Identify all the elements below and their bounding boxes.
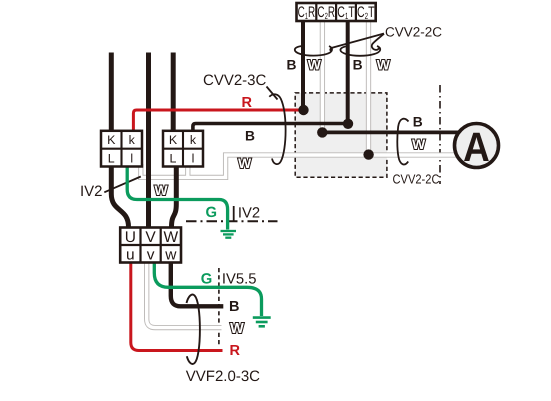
leader to loop1 [330, 34, 384, 51]
terminal block Kk/Ll left [101, 131, 142, 167]
svg-text:A: A [463, 124, 490, 170]
leader to loop2 [372, 34, 384, 50]
leader to 3C loop [267, 87, 278, 100]
svg-text:IV2: IV2 [238, 206, 260, 222]
svg-text:w: w [164, 246, 177, 263]
cable loop 2 (top right pair) [340, 46, 380, 56]
wire W main core [141, 155, 462, 177]
wire R top (k to box) [133, 110, 303, 133]
svg-text:W: W [155, 183, 169, 198]
wire G IV2 (l terminal to earth) [127, 165, 227, 230]
svg-text:B: B [245, 128, 255, 143]
svg-text:B: B [287, 57, 297, 72]
svg-text:W: W [163, 229, 178, 246]
svg-text:VVF2.0-3C: VVF2.0-3C [186, 368, 260, 385]
svg-text:W: W [412, 137, 426, 152]
cable loop CVV2-3C [269, 94, 285, 164]
wire G IV5.5 (v terminal to earth) [154, 261, 261, 316]
motor lead wire 3 [171, 53, 176, 134]
wire W C2R drop core [321, 19, 324, 132]
svg-text:IV5.5: IV5.5 [222, 272, 257, 288]
motor lead wire 1 [109, 53, 114, 134]
ammeter A [455, 124, 499, 170]
svg-text:IV2: IV2 [80, 183, 103, 200]
wire L to W (S-curve) [172, 164, 177, 229]
wire W outline group (white wires: gray outline) [141, 20, 462, 328]
svg-text:B: B [229, 299, 239, 315]
node dot C2R-B meter [317, 127, 327, 137]
terminal block C (top) [297, 3, 376, 21]
wire W from v terminal to VVF [147, 261, 222, 328]
svg-text:v: v [147, 246, 155, 263]
svg-text:G: G [201, 272, 213, 288]
wire W main (l terminals to meter) [141, 155, 462, 177]
svg-text:k: k [190, 133, 197, 147]
svg-text:B: B [353, 57, 363, 72]
wire B C1T drop [346, 20, 350, 124]
svg-text:U: U [125, 229, 136, 246]
svg-text:l: l [192, 151, 195, 165]
svg-text:l: l [130, 151, 133, 165]
wire B k to box [193, 124, 348, 134]
wire W C2T drop core [367, 19, 370, 155]
IV2 leader line [104, 177, 141, 193]
node dot C1R-R [298, 105, 308, 115]
wire W stub right l [185, 164, 190, 177]
wire R bottom (u to VVF) [131, 261, 223, 351]
wire L to U (S-curve) [111, 164, 128, 229]
svg-text:W: W [238, 156, 252, 171]
svg-text:V: V [145, 229, 156, 246]
svg-text:R: R [230, 343, 241, 359]
svg-text:CVV2-2C: CVV2-2C [393, 172, 440, 187]
wire B box to meter [322, 130, 462, 134]
terminal block Kk/Ll right [163, 131, 203, 167]
svg-text:L: L [108, 151, 115, 165]
svg-text:G: G [206, 205, 218, 221]
node dot C1T-B [343, 119, 353, 129]
svg-text:u: u [126, 246, 135, 263]
dash-dot earth line (IV2) [186, 220, 278, 222]
cable loop (VVF) [187, 295, 200, 364]
wire B C1R drop [301, 20, 305, 110]
svg-text:W: W [377, 58, 391, 73]
svg-text:B: B [413, 115, 423, 130]
motor lead wire 2 [146, 53, 151, 230]
cable loop 1 (top left pair) [295, 46, 332, 56]
wire W stub right l core [186, 163, 189, 177]
svg-text:W: W [308, 58, 322, 73]
node dot C2T-W meter [363, 149, 373, 159]
svg-text:K: K [107, 133, 116, 147]
wire W v terminal core [147, 260, 222, 328]
wire W C2R drop [320, 20, 325, 132]
svg-text:CVV2-3C: CVV2-3C [203, 72, 267, 89]
wire B w-terminal to VVF [171, 261, 224, 306]
cable loop (meter pair) [397, 119, 408, 165]
tick before IV2 [233, 206, 235, 221]
svg-text:L: L [170, 151, 177, 165]
svg-text:W: W [230, 321, 244, 337]
ground IV5.5 [253, 318, 271, 327]
junction box (dashed gray box) [295, 93, 387, 177]
terminal block UVW (bottom) [120, 228, 181, 264]
dashed boundary line (bottom, VVF) [218, 268, 220, 346]
ground IV2 [221, 231, 237, 238]
wire W C2T drop [366, 20, 371, 155]
svg-text:K: K [169, 133, 178, 147]
svg-text:R: R [242, 95, 253, 111]
svg-text:CVV2-2C: CVV2-2C [385, 25, 442, 40]
wire W white cores (pass 2) [141, 19, 462, 328]
svg-text:k: k [129, 133, 136, 147]
dash-dot boundary line (right, meter) [439, 85, 441, 184]
